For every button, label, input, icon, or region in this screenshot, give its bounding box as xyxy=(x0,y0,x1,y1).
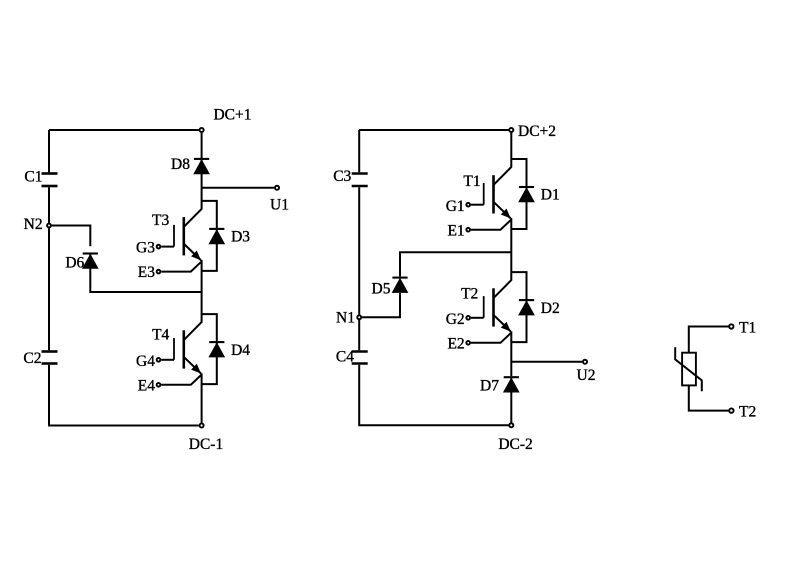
diode D1 xyxy=(519,187,534,202)
svg-text:G4: G4 xyxy=(136,353,155,370)
label C1 xyxy=(24,168,42,185)
terminal E2 xyxy=(466,341,470,345)
wire G3 lead xyxy=(161,246,174,248)
wire D6 to T3 emitter xyxy=(90,255,201,293)
svg-text:E2: E2 xyxy=(447,335,464,352)
label E1 xyxy=(447,222,464,239)
svg-text:E3: E3 xyxy=(138,264,155,281)
transistor T1 xyxy=(484,159,512,218)
wire N2 to C2 xyxy=(48,228,50,350)
wire left rail upper xyxy=(48,130,50,172)
label D1 xyxy=(541,187,560,204)
label D8 xyxy=(171,156,190,173)
label DC-2 xyxy=(498,436,532,453)
svg-text:C2: C2 xyxy=(23,350,41,367)
terminal E4 xyxy=(157,383,161,387)
diode D6 xyxy=(83,254,98,269)
wire DC+2 top rail xyxy=(359,129,508,131)
terminal T1 xyxy=(729,324,733,328)
svg-text:G2: G2 xyxy=(446,311,465,328)
transistor T3 xyxy=(174,201,202,260)
label C3 xyxy=(333,168,351,185)
terminal G4 xyxy=(157,358,161,362)
label DC+1 xyxy=(213,107,251,124)
wire C3 to N1 xyxy=(358,187,360,314)
diode D5 xyxy=(392,278,407,293)
diode D8 xyxy=(194,159,209,174)
svg-text:T2: T2 xyxy=(461,285,478,302)
svg-text:E1: E1 xyxy=(447,222,464,239)
wire T1 emitter to T2 xyxy=(510,218,512,272)
svg-text:U2: U2 xyxy=(577,367,596,384)
wire left rail lower xyxy=(49,365,199,426)
svg-text:T4: T4 xyxy=(152,327,169,344)
svg-text:N1: N1 xyxy=(336,309,355,326)
wire D1 branch xyxy=(511,159,526,229)
svg-text:C3: C3 xyxy=(333,168,351,185)
wire T2 emitter to D7 xyxy=(510,331,512,376)
terminal DC+2 xyxy=(509,128,513,132)
label G2 xyxy=(446,311,465,328)
node N2 xyxy=(47,224,51,228)
label D3 xyxy=(231,229,250,246)
wire G1 lead xyxy=(471,204,484,206)
label DC-1 xyxy=(189,436,223,453)
node N1 xyxy=(357,315,361,319)
svg-text:D2: D2 xyxy=(541,300,560,317)
svg-text:T3: T3 xyxy=(152,212,169,229)
label D4 xyxy=(231,342,250,359)
label C2 xyxy=(23,350,41,367)
label D2 xyxy=(541,300,560,317)
svg-text:T2: T2 xyxy=(739,403,756,420)
label T1 xyxy=(463,173,480,190)
label U1 xyxy=(270,197,289,214)
svg-text:D6: D6 xyxy=(65,254,84,271)
wire D7 to DC-2 xyxy=(510,378,512,422)
svg-text:T1: T1 xyxy=(463,173,480,190)
svg-text:D8: D8 xyxy=(171,156,190,173)
wire right rail lower xyxy=(359,365,508,426)
diode D3 xyxy=(209,229,224,244)
wire DC+2 to T1 xyxy=(510,133,512,159)
wire thermistor T1 lead xyxy=(689,327,729,353)
terminal T2 xyxy=(729,408,733,412)
wire N2 to D6 xyxy=(52,226,91,247)
svg-text:D3: D3 xyxy=(231,229,250,246)
terminal E1 xyxy=(466,228,470,232)
svg-text:D7: D7 xyxy=(480,378,499,395)
wire N1 to C4 xyxy=(358,320,360,350)
wire C1 to N2 xyxy=(48,187,50,223)
wire U1 junction to T3 xyxy=(201,188,203,201)
wire D4 branch xyxy=(202,314,217,384)
label U2 xyxy=(577,367,596,384)
svg-text:D5: D5 xyxy=(372,281,391,298)
capacitor C1 xyxy=(42,174,58,187)
label D5 xyxy=(372,281,391,298)
diode D7 xyxy=(504,377,519,392)
svg-text:D1: D1 xyxy=(541,187,560,204)
wire U1 output xyxy=(202,187,275,189)
diode D4 xyxy=(209,342,224,357)
label T3 xyxy=(152,212,169,229)
svg-text:C1: C1 xyxy=(24,168,42,185)
wire D2 branch xyxy=(511,272,526,342)
wire D3 branch xyxy=(202,201,217,271)
diode D2 xyxy=(519,300,534,315)
capacitor C2 xyxy=(42,352,58,364)
transistor T4 xyxy=(174,314,202,373)
terminal DC-2 xyxy=(509,423,513,427)
terminal G3 xyxy=(157,245,161,249)
terminal G1 xyxy=(466,203,470,207)
wire E3 lead xyxy=(161,262,201,272)
wire T3 emitter to T4 xyxy=(201,260,203,314)
label D7 xyxy=(480,378,499,395)
svg-text:D4: D4 xyxy=(231,342,250,359)
svg-text:G3: G3 xyxy=(136,240,155,257)
wire E1 lead xyxy=(471,220,511,230)
svg-text:C4: C4 xyxy=(336,349,354,366)
svg-text:G1: G1 xyxy=(446,198,465,215)
wire G4 lead xyxy=(161,359,174,361)
svg-text:N2: N2 xyxy=(24,216,43,233)
wire N1 to D5 xyxy=(362,293,400,318)
label T2 xyxy=(461,285,478,302)
capacitor C3 xyxy=(352,174,368,187)
wire DC+1 top rail xyxy=(49,129,199,131)
terminal U2 xyxy=(583,360,587,364)
svg-text:U1: U1 xyxy=(270,197,289,214)
label E2 xyxy=(447,335,464,352)
svg-text:E4: E4 xyxy=(138,377,155,394)
label C4 xyxy=(336,349,354,366)
wire U2 output xyxy=(511,361,582,363)
wire thermistor T2 lead xyxy=(689,385,729,410)
svg-text:DC-2: DC-2 xyxy=(498,436,532,453)
label E3 xyxy=(138,264,155,281)
wire right rail upper xyxy=(358,130,360,172)
svg-text:DC-1: DC-1 xyxy=(189,436,223,453)
terminal DC-1 xyxy=(200,423,204,427)
label G3 xyxy=(136,240,155,257)
label T2 xyxy=(739,403,756,420)
svg-text:T1: T1 xyxy=(739,320,756,337)
wire G2 lead xyxy=(471,317,484,319)
terminal DC+1 xyxy=(200,128,204,132)
label T4 xyxy=(152,327,169,344)
wire D5 to T1 emitter xyxy=(400,252,511,276)
label G4 xyxy=(136,353,155,370)
svg-text:DC+2: DC+2 xyxy=(518,123,556,140)
terminal U1 xyxy=(275,186,279,190)
terminal G2 xyxy=(466,316,470,320)
transistor T2 xyxy=(484,272,512,331)
label G1 xyxy=(446,198,465,215)
wire DC+1 to D8 xyxy=(201,133,203,188)
capacitor C4 xyxy=(352,352,368,364)
terminal E3 xyxy=(157,270,161,274)
label DC+2 xyxy=(518,123,556,140)
label T1 xyxy=(739,320,756,337)
label D6 xyxy=(65,254,84,271)
label E4 xyxy=(138,377,155,394)
wire E4 lead xyxy=(161,375,201,385)
wire E2 lead xyxy=(471,333,511,343)
wire T4 emitter to DC-1 xyxy=(201,373,203,422)
svg-text:DC+1: DC+1 xyxy=(213,107,251,124)
thermistor RT xyxy=(675,347,702,391)
label N2 xyxy=(24,216,43,233)
label N1 xyxy=(336,309,355,326)
